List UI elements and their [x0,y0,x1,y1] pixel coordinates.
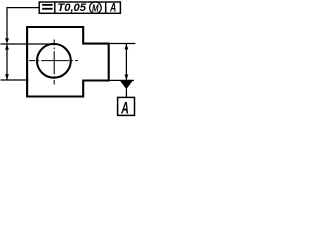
leader from frame [7,8,39,39]
leader arrow down [5,38,9,44]
datum triangle A [120,81,132,89]
horizontal centerline [29,60,78,62]
dimension line left [6,44,8,80]
datum frame box [118,97,135,115]
datum stem [125,89,127,97]
right dim arrow up [125,44,129,50]
extension line bottom-right [110,79,134,81]
svg-text:A: A [109,3,116,15]
right dim arrow down [125,75,129,81]
left dim arrow down [5,74,9,80]
svg-text:M: M [92,2,99,14]
feature control frame U1 [39,2,120,13]
left dim arrow up [5,44,9,50]
extension line top-right [110,43,136,45]
MMC modifier circled M [90,2,102,14]
extension line bottom-left [1,79,29,81]
vertical centerline [53,40,55,85]
svg-text:T0,05: T0,05 [57,2,87,14]
parallelism symbol = [42,4,52,10]
hole circle [37,44,71,78]
svg-text:A: A [121,99,129,117]
extension line top-left (tangent to hole) [1,43,54,45]
part outline [27,27,109,97]
dimension line right [125,44,127,80]
